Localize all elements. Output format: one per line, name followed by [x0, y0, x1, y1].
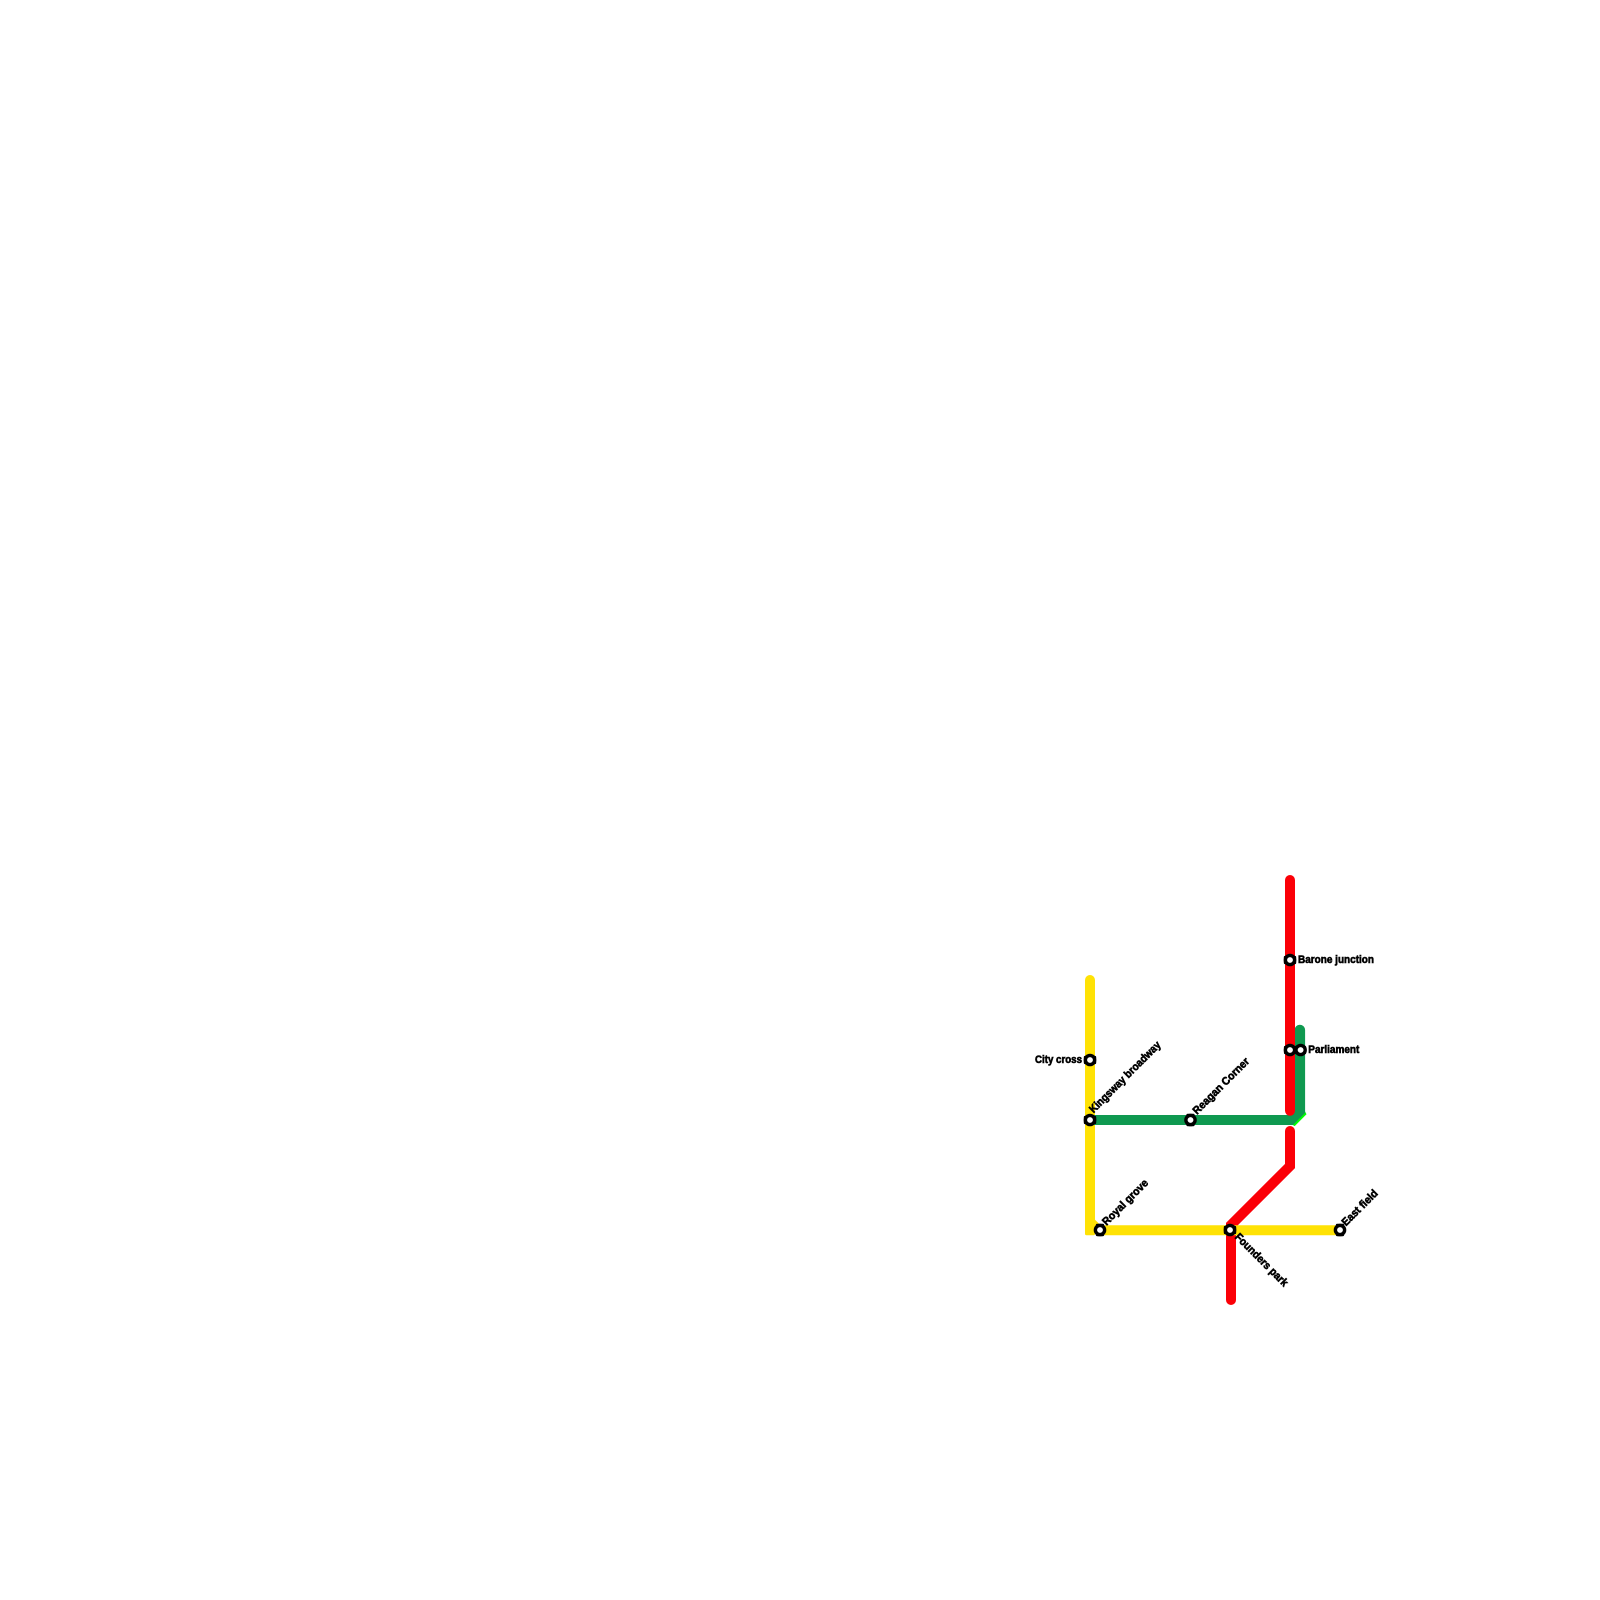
station Barons junction marker	[1284, 954, 1297, 967]
wire red line upper segment	[1285, 880, 1295, 1111]
wire yellow corner patch Royal grove	[1085, 1221, 1095, 1235]
wire lime connector accent	[1291, 1111, 1307, 1127]
station Parliament marker	[1284, 1044, 1307, 1057]
svg-text:City cross: City cross	[1035, 1054, 1082, 1066]
station Reagan Corner marker	[1184, 1114, 1197, 1127]
wire green line	[1085, 1025, 1305, 1125]
station East field marker	[1334, 1224, 1347, 1237]
svg-text:Barone junction: Barone junction	[1298, 954, 1374, 966]
station City cross marker	[1084, 1054, 1097, 1067]
wire yellow line City cross branch	[1090, 980, 1335, 1230]
svg-text:Parliament: Parliament	[1308, 1044, 1359, 1056]
station Royal grove marker	[1094, 1224, 1107, 1237]
station Kingsway broadway marker	[1084, 1114, 1097, 1127]
wire red line lower segment	[1231, 1131, 1290, 1300]
station Founders park marker	[1224, 1224, 1237, 1237]
